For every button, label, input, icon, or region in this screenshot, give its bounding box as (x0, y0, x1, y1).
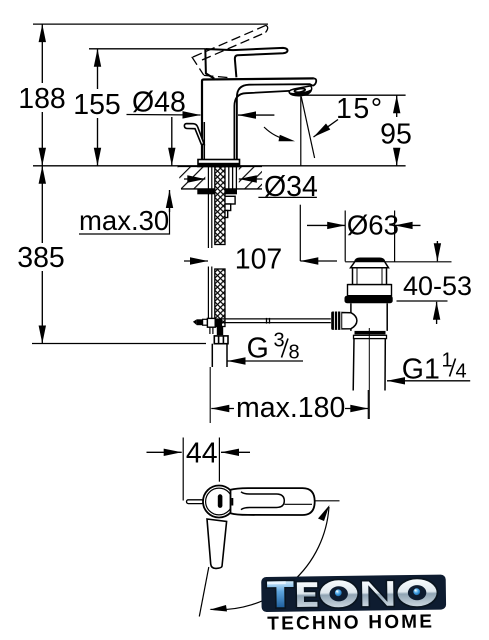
threaded shank upper (215, 167, 225, 327)
letter E (296, 581, 318, 608)
body inner left wall (203, 122, 205, 161)
reference line top (188 top) (33, 23, 268, 25)
top view: handle outer (231, 488, 315, 515)
top view: small tick (231, 498, 233, 506)
pop-up drain valve (348, 258, 392, 284)
cap flare (351, 262, 389, 268)
stream extension line below deck (299, 205, 301, 261)
supply nut (214, 336, 228, 344)
stream swing arc with arrow (264, 127, 289, 140)
dimension 95 (380, 95, 412, 166)
dimension Ø63 (307, 210, 421, 241)
svg-text:Ø48: Ø48 (132, 87, 186, 119)
svg-text:G: G (247, 333, 269, 365)
supply tube in deck hole (229, 167, 237, 189)
aerator pod (289, 86, 312, 96)
handle raised (dashed) (192, 25, 268, 77)
dimension 44 (147, 438, 251, 501)
top view: body circle (203, 486, 235, 518)
top view: spout direction line (199, 567, 209, 617)
drain top extension line (345, 261, 451, 263)
upper cylinder (353, 268, 387, 285)
top view: horizontal reference line (313, 500, 340, 502)
shank bottom block (217, 327, 223, 335)
svg-text:max.30: max.30 (79, 205, 169, 236)
dimension max.180 (210, 367, 368, 424)
drain centerline (368, 328, 370, 419)
drain body bottom bands (355, 331, 386, 335)
label Ø48 with leader (127, 87, 201, 119)
ball joint housing (342, 313, 357, 329)
letter O2 (397, 578, 438, 607)
svg-text:95: 95 (380, 119, 412, 151)
dimension 155 (73, 49, 121, 166)
letter T (266, 580, 294, 608)
label G 3/8 (228, 330, 304, 365)
top view: pull rod tip (187, 500, 204, 504)
svg-text:TECHNO: TECHNO (267, 612, 361, 634)
handle lever (down position) (205, 48, 287, 79)
label G1 1/4 (387, 350, 470, 386)
15 degree stream vertical line (300, 97, 302, 166)
pull rod vertical (upper) (208, 167, 211, 318)
deck hatch right part (239, 167, 262, 189)
svg-text:3: 3 (274, 330, 285, 352)
faucet base plate (198, 160, 240, 167)
svg-text:15°: 15° (336, 93, 384, 125)
drain: Ø63 extension lines (344, 211, 346, 262)
svg-text:4: 4 (456, 361, 467, 383)
clamp screw dark block (215, 318, 222, 327)
top view: spout tube (207, 519, 227, 568)
flange seal (dark band) (348, 285, 392, 296)
svg-text:Ø34: Ø34 (264, 171, 318, 203)
svg-text:8: 8 (289, 342, 300, 364)
rod stub below clamp (210, 327, 213, 334)
svg-text:188: 188 (18, 83, 66, 115)
dimension 40-53 (397, 241, 473, 324)
rod clamp block (207, 318, 215, 327)
dimension Ø34 (184, 171, 318, 203)
svg-text:40-53: 40-53 (403, 271, 472, 301)
tailpipe (353, 339, 385, 391)
reference line 95 top (301, 94, 406, 96)
svg-text:1: 1 (442, 350, 453, 372)
svg-text:107: 107 (235, 244, 283, 276)
leader arrow for 15 degrees (314, 120, 339, 138)
letter N (361, 580, 394, 607)
body inner right wall (237, 84, 313, 161)
15 degree slant line (301, 97, 314, 159)
svg-text:44: 44 (186, 438, 218, 470)
body left outer edge (202, 78, 314, 163)
drain body below flange (351, 303, 387, 331)
Ø48 right-side arrow pointing at body (238, 114, 274, 116)
logo TEONO (261, 575, 446, 635)
supply hose (212, 344, 227, 367)
top view: swivel arc with arrows (211, 507, 330, 610)
cylinder inner lines (357, 268, 382, 285)
letter O1 (319, 579, 359, 608)
pull rod linkage pin (193, 319, 208, 325)
handle neck left edge (205, 49, 214, 79)
dimension 188 (18, 24, 66, 166)
svg-text:Ø63: Ø63 (347, 210, 399, 241)
dimension 385 (17, 166, 65, 344)
svg-text:385: 385 (17, 242, 65, 274)
washer under deck (197, 189, 237, 194)
knurled knob (331, 312, 342, 330)
svg-text:HOME: HOME (368, 611, 434, 633)
deck top line (178, 165, 262, 167)
deck hatch left part (178, 167, 206, 189)
spout tip front face (313, 78, 316, 85)
faucet side view: body outline (202, 78, 316, 163)
svg-text:max.180: max.180 (236, 392, 345, 424)
reference line 385 bottom (32, 343, 206, 345)
drain pull lever on body left (184, 124, 204, 145)
top view: handle inner outline (241, 492, 284, 510)
cap dome (355, 258, 385, 261)
top view: blade edge line (285, 503, 313, 505)
dimension max.30 (79, 117, 172, 236)
top view: pivot pin (218, 494, 223, 508)
horizontal linkage rod to drain (222, 318, 331, 324)
dimension 107 (184, 244, 337, 276)
spout underside (234, 91, 289, 161)
reference line deck level (33, 165, 406, 167)
reference line 155 top (89, 48, 205, 50)
deck bottom line (181, 188, 262, 190)
svg-text:155: 155 (73, 89, 121, 121)
mounting stud stack (222, 196, 235, 217)
